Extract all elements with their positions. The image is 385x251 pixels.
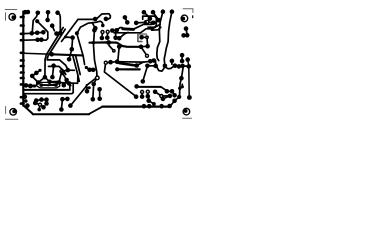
trace A5 hook down <box>57 12 60 33</box>
board bottom edge left <box>33 113 89 115</box>
pad J12 <box>64 36 67 39</box>
pad H14 <box>163 64 168 69</box>
pad M7 <box>91 82 96 87</box>
pad A2 <box>36 11 41 16</box>
pad G3 <box>145 44 150 49</box>
trace F6 long vertical <box>188 60 190 98</box>
trace D4-D5 <box>101 32 104 38</box>
trace D6-D7 <box>106 32 108 38</box>
trace F4-F5 <box>181 55 183 61</box>
pad G8 <box>117 44 122 49</box>
pad B2 <box>35 31 40 36</box>
trace second diagonal <box>77 21 103 33</box>
pad I2 <box>34 71 39 76</box>
trace A7 stem <box>52 26 54 31</box>
trace M11 stem <box>86 85 89 92</box>
pad P2 <box>177 95 181 99</box>
trace capsule inner bar <box>42 84 57 86</box>
pad H13 <box>141 79 146 84</box>
pad J7 <box>67 81 72 86</box>
trace G3-G4 <box>146 37 149 46</box>
pad G5 <box>139 35 144 40</box>
trace L3-L4 <box>46 100 48 104</box>
board bottom edge right <box>102 105 170 107</box>
trace staircase A <box>134 21 159 30</box>
pad M1 <box>60 97 65 102</box>
trace E10 long curve <box>164 12 172 65</box>
pad H10 <box>91 68 96 73</box>
pad N7b <box>152 102 156 106</box>
trace grey L <box>138 35 142 42</box>
pad J11 <box>70 35 75 40</box>
via N2 <box>141 90 144 93</box>
trace M5-M7-M8 <box>93 78 97 99</box>
pad B4 <box>35 38 40 43</box>
pad D11 <box>117 36 122 41</box>
trace A3-A4 <box>47 12 49 20</box>
trace F1-F2 <box>185 29 188 36</box>
trace I1-I2 <box>32 70 40 76</box>
trace H12 tick <box>154 62 156 66</box>
pad E8 <box>157 18 162 23</box>
pad H9 <box>87 68 92 73</box>
pad G1 <box>106 40 111 45</box>
trace short vertical <box>69 84 71 89</box>
trace H9-H10 <box>90 69 94 71</box>
trace capsule outline <box>37 82 60 88</box>
trace M1-M2 <box>62 98 67 100</box>
trace O2-O3 <box>167 90 172 92</box>
pad H3 <box>115 59 120 64</box>
trace B1-B2 <box>24 32 43 33</box>
trace G2-G6 <box>141 47 147 56</box>
pad G2 <box>139 45 144 50</box>
pad J4 <box>66 68 71 73</box>
mounting hole bottom-left <box>10 109 17 116</box>
trace mid horizontal right <box>52 54 83 55</box>
pad D10 <box>113 36 118 41</box>
pad A3 <box>46 10 51 15</box>
pad E5 <box>142 10 147 15</box>
pad E3 <box>134 21 139 26</box>
trace J1-J2 <box>52 66 53 77</box>
trace M11-M12 <box>87 87 89 89</box>
trace C1 down <box>77 34 85 65</box>
trace N5-N7 <box>148 97 150 101</box>
trace O3-O5 <box>172 91 175 95</box>
trace E5-E6 <box>144 12 150 18</box>
pad C1 <box>75 31 79 35</box>
trace J10-J11 <box>71 38 74 49</box>
trace I4 tail <box>30 83 38 87</box>
trace D1 long vertical <box>94 30 97 77</box>
trace diagonal pair 1b <box>47 29 65 60</box>
pad H16 <box>170 59 175 64</box>
pad E10 <box>170 9 175 14</box>
pad M2 <box>65 97 70 102</box>
via E11 <box>146 20 149 23</box>
via H1 <box>104 61 107 64</box>
mounting hole top-right <box>181 15 188 22</box>
edge stub pad 10 <box>21 83 24 86</box>
trace wedge <box>119 63 137 66</box>
trace L6-L8 <box>38 105 41 110</box>
pad L7 <box>41 105 46 110</box>
pad E4 <box>144 20 149 25</box>
pad capsule R <box>54 83 58 87</box>
trace M1-M3 <box>61 99 62 109</box>
trace staircase B <box>114 24 160 32</box>
pad O3 <box>170 89 175 94</box>
edge stub pad 2 <box>21 24 24 27</box>
pad F7 <box>187 64 192 69</box>
via D6 <box>106 30 109 33</box>
pad N7 <box>146 98 151 103</box>
corner mark bottom-left horizontal <box>5 118 18 120</box>
pad A5 <box>55 10 60 15</box>
via G4 <box>146 36 148 38</box>
pad N9 <box>147 104 152 109</box>
corner mark top-left horizontal <box>5 9 17 11</box>
edge stub pad 9 <box>21 77 24 80</box>
trace G2-G3 <box>141 45 148 48</box>
pad wave mid <box>93 17 98 22</box>
trace H11-H12 <box>147 65 155 67</box>
pad N1 <box>134 84 139 89</box>
pad L4 <box>44 101 49 106</box>
trace O1-O4 <box>163 95 170 97</box>
pad A1 <box>23 10 28 15</box>
trace M9-M10 <box>99 89 101 98</box>
pad F6 <box>185 57 190 62</box>
pad H2 <box>108 60 113 65</box>
pad N3 <box>140 94 145 99</box>
pad F3 <box>181 33 186 38</box>
pad M8 <box>91 97 96 102</box>
trace D8-D9 <box>112 29 116 31</box>
pad O2 <box>165 89 170 94</box>
trace double smile <box>155 62 175 71</box>
via O1 <box>160 95 163 98</box>
pad H4 <box>148 59 153 64</box>
pad N11 <box>167 104 172 109</box>
pad D5 <box>100 36 105 41</box>
pad I3 <box>38 69 41 72</box>
trace bend outer <box>47 60 68 70</box>
corner mark top-right vertical <box>192 9 194 13</box>
pad L5 <box>33 101 38 106</box>
trace wave diagonal <box>62 14 111 42</box>
trace H16 tick down <box>171 61 173 64</box>
pad E1 <box>123 15 128 20</box>
pad O6 <box>161 97 166 102</box>
pad M9 <box>97 87 102 92</box>
trace D2 stem <box>92 23 95 28</box>
pad J5 <box>60 71 65 76</box>
trace K row <box>26 84 34 87</box>
pad B1 <box>30 31 35 36</box>
pad H19 <box>177 64 182 69</box>
pad I1 <box>30 74 35 79</box>
trace V shape <box>32 76 45 82</box>
trace J8 L-path <box>59 76 78 84</box>
pad P3 <box>178 87 181 90</box>
pad I7 <box>28 84 33 89</box>
trace H11-H13 <box>143 66 148 81</box>
corner mark top-right horizontal <box>183 8 193 10</box>
trace H6 join <box>137 62 144 65</box>
pad H7 <box>115 67 119 71</box>
pad J8 <box>57 80 62 85</box>
pad E2 <box>125 20 130 25</box>
pad M10 <box>97 96 102 101</box>
pad mid-row <box>49 52 54 57</box>
mounting hole top-left <box>9 14 16 21</box>
pad O4 <box>168 94 173 99</box>
pad M6 <box>134 94 139 99</box>
pad N8 <box>142 104 147 109</box>
pad J9 <box>67 57 72 62</box>
pad L2 <box>39 97 44 102</box>
pad F8 <box>187 95 192 100</box>
pad H6 <box>134 63 139 68</box>
board left edge <box>22 12 24 106</box>
pad F4 <box>180 53 185 58</box>
pad E7 <box>151 10 156 15</box>
trace G8 vertical <box>118 47 119 62</box>
trace N4-N5 <box>147 92 149 97</box>
trace halftone bar <box>140 33 147 35</box>
corner mark bottom-right horizontal <box>183 117 192 119</box>
pad L9 <box>23 95 28 100</box>
pad K2 <box>24 83 29 88</box>
trace X arm 1 <box>62 73 70 86</box>
trace staircase A thick bar <box>123 27 134 31</box>
trace L5-L6-L7 <box>35 103 43 107</box>
trace D9-D10 <box>115 31 117 38</box>
trace H15-H20 chain <box>175 65 189 68</box>
edge stub pad 7 <box>21 65 24 68</box>
trace box around E11 <box>143 16 157 27</box>
trace main horizontal <box>90 42 142 46</box>
corner mark bottom-left vertical <box>5 107 7 114</box>
edge stub pad 11 <box>21 96 24 99</box>
via N4 <box>146 90 149 93</box>
trace J11 horizontal <box>65 36 72 39</box>
pad I5 <box>43 75 48 80</box>
pad M4 <box>68 103 73 108</box>
edge stub pad 12 <box>21 102 24 105</box>
trace H8-H9 <box>86 68 89 70</box>
pad H5 <box>152 58 157 63</box>
trace diag pair top join <box>44 59 46 77</box>
pad B5 <box>39 37 44 42</box>
pad L8 <box>37 108 41 112</box>
trace mid horizontal left <box>24 53 52 54</box>
trace J9 up <box>69 49 72 59</box>
pad B3 <box>41 30 46 35</box>
pad K3 <box>28 84 33 89</box>
board bottom-left bevel <box>23 105 33 114</box>
trace G5-G4 <box>142 36 146 38</box>
trace E1-E2 <box>125 17 127 22</box>
pad H21 <box>179 76 184 81</box>
edge stub pad 4 <box>21 39 24 42</box>
trace O6-O4 <box>163 96 170 99</box>
pad N6 <box>153 90 158 95</box>
pad E6 <box>148 16 153 21</box>
pad H20 <box>180 64 185 69</box>
trace B4-B5 <box>38 39 42 41</box>
pad H11 <box>145 64 150 69</box>
pad A7 <box>50 23 55 28</box>
via G6 <box>146 54 149 57</box>
pad A8 <box>35 19 39 23</box>
pad F1 <box>184 26 189 31</box>
pad A1b <box>26 10 31 15</box>
trace O7 tick <box>181 84 183 87</box>
board bottom-right bevel <box>170 97 179 106</box>
pad D1 <box>92 28 97 33</box>
pad J10 <box>70 47 75 52</box>
edge stub pad 3 <box>21 32 24 35</box>
trace zigzag to bar <box>117 28 124 31</box>
trace big diag down-right <box>104 64 136 97</box>
pad I6 <box>47 80 52 85</box>
pad capsule L <box>40 83 44 87</box>
edge stub pad 8 <box>21 71 24 74</box>
trace J3-J4 <box>63 70 75 71</box>
pad A6 <box>58 31 63 36</box>
trace box slant <box>161 87 167 91</box>
trace N2-N3 <box>141 92 143 97</box>
trace lower slash <box>48 84 58 86</box>
trace E7-E8 <box>153 12 159 20</box>
pad L11 <box>25 103 30 108</box>
pad E12 <box>151 21 156 26</box>
trace steep pair b <box>76 56 81 75</box>
pad H8 <box>85 66 88 69</box>
trace ground horizontal thick <box>23 89 69 91</box>
trace L1-L5 <box>35 101 36 103</box>
trace N6 slant <box>155 92 161 96</box>
board bottom step <box>89 107 103 114</box>
pad N10 <box>159 104 164 109</box>
pad N5 <box>146 94 151 99</box>
pad E9 <box>161 9 166 14</box>
pad D8 <box>110 28 115 33</box>
trace E3-E4 <box>136 21 146 24</box>
pad O7 <box>181 85 184 88</box>
trace steep pair a <box>73 57 79 82</box>
pad L1 <box>34 98 39 103</box>
pad P1 <box>172 99 177 104</box>
pad O5 <box>172 93 177 98</box>
trace to G7 <box>109 46 114 51</box>
pad G1b <box>92 41 95 44</box>
via M5 <box>96 76 100 80</box>
trace I5-I6 <box>45 77 59 82</box>
via D4 <box>101 31 104 34</box>
pad F5 <box>180 59 185 64</box>
pad J6 <box>64 78 69 83</box>
trace N7 slant <box>149 101 154 104</box>
pad A9 <box>54 31 59 36</box>
trace P3 down <box>180 79 182 97</box>
trace E9 long curve <box>157 12 163 61</box>
pad H15 <box>173 63 178 68</box>
pad K1 <box>62 83 67 88</box>
trace diagonal pair 1a <box>45 28 63 61</box>
mounting hole bottom-right <box>183 108 190 115</box>
trace H row <box>108 61 156 63</box>
pad L3 <box>44 97 49 102</box>
trace L1-L2 <box>36 100 46 101</box>
pad J2 <box>50 75 55 80</box>
pad H12 <box>153 64 158 69</box>
trace bend inner <box>49 66 66 74</box>
trace A2 to vertical <box>32 13 38 33</box>
via J3 <box>60 70 63 73</box>
pad J1 <box>51 63 56 68</box>
pad M11 <box>85 89 90 94</box>
trace thick bar <box>117 68 140 70</box>
pad A4 <box>45 18 50 23</box>
pad D3 <box>101 24 105 28</box>
trace H20-H21 <box>181 68 183 79</box>
trace E11-E12 <box>149 21 153 24</box>
corner mark top-right tick <box>192 16 194 18</box>
pad D9 <box>114 28 119 33</box>
pad D7 <box>105 35 110 40</box>
pad M12 <box>88 86 91 89</box>
edge stub pad 5 <box>21 51 24 54</box>
trace y87 horizontal <box>137 86 161 88</box>
pad F2 <box>185 33 190 38</box>
edge stub pad 6 <box>21 59 24 62</box>
trace X arm 2 <box>59 72 62 82</box>
pad I4 <box>36 80 41 85</box>
via G7 <box>113 50 115 52</box>
pad L10 <box>24 99 27 102</box>
trace F3-F2 <box>184 34 188 36</box>
via L6 <box>39 103 42 106</box>
trace box tail <box>151 27 161 30</box>
trace staircase C join <box>119 32 128 38</box>
pad D2 <box>93 26 98 31</box>
trace A1 stem <box>24 12 26 13</box>
edge stub pad 1 <box>21 16 24 19</box>
corner mark top-left vertical <box>5 13 7 20</box>
pad M3 <box>59 107 64 112</box>
trace inner L <box>23 84 73 93</box>
trace A8 J-hook <box>37 21 48 40</box>
trace edge to B4 <box>24 39 37 41</box>
trace big diag down-left <box>71 77 97 105</box>
pad wave end <box>104 17 109 22</box>
